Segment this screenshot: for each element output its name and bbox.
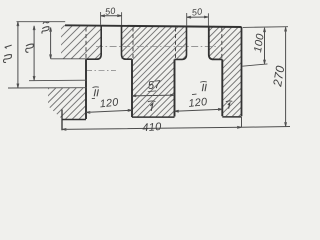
svg-text:57: 57 [147,79,162,92]
slot1 stem right + fillet [122,25,133,59]
dim line 100 [264,28,266,64]
ledge extension 100 [243,64,268,66]
top surface [65,25,242,27]
label u2 [42,22,49,33]
svg-text:270: 270 [270,64,287,88]
svg-text:120: 120 [99,96,119,110]
50 dim slot2 extensions [186,13,188,25]
120 left dim line [86,110,132,112]
bottom middle block [132,116,175,118]
410 bottom-right jog [241,117,243,127]
svg-text:120: 120 [188,96,208,110]
slot1 stem left + fillet [86,25,101,59]
hidden line foot2 right (dashed) [221,28,223,59]
hatch region right block [0,25,320,117]
bottom left leg [62,119,86,121]
dim line 270 [285,27,287,126]
hatch region left-upper block [0,25,137,59]
slot2 stem right + fillet [209,26,223,60]
slot2 foot left edge [174,59,176,116]
mark II foot2 [200,81,207,84]
label u [26,44,34,52]
bottom right leg [222,116,241,118]
mark I right leg [226,100,233,103]
top-right extension [243,26,288,29]
dim line u [33,26,35,80]
410 dim line + right extension [62,127,290,130]
dim u bottom extension [29,79,87,82]
50 dim slot2 line [187,16,208,18]
hatch region middle block [0,25,285,117]
mark I middle block [148,100,156,103]
dim line u1 [17,22,19,88]
hidden line foot2 left (dashed) [175,28,177,59]
right edge [241,27,243,116]
hatch region left leg [0,88,124,120]
50 dim slot1 extensions [100,12,102,25]
57 underline [148,90,156,93]
slot1 foot left edge [85,59,87,119]
slot1 foot right edge [131,59,133,117]
label u1 [4,45,12,62]
50 dim slot1 line [101,15,122,17]
hidden line foot1 right (dashed) [132,28,134,59]
mark II foot1 [93,86,99,89]
svg-text:50: 50 [104,6,116,17]
ledge extension to foot1 [51,58,87,60]
svg-text:410: 410 [142,121,163,134]
dim u1 bottom extension [8,87,87,89]
57 dim line [132,94,175,97]
dim line u2 [50,27,52,58]
slot2 foot right edge [221,59,223,116]
slot2 stem left + fillet [175,26,187,60]
left leg edge [61,110,63,131]
120 right dim line [175,109,223,111]
centerline foot1 dash [86,69,116,71]
svg-text:50: 50 [191,6,203,17]
dim u1 top extension [17,21,66,23]
hidden line foot1 left (dashed) [85,28,87,59]
centerline slot axis [96,45,216,47]
